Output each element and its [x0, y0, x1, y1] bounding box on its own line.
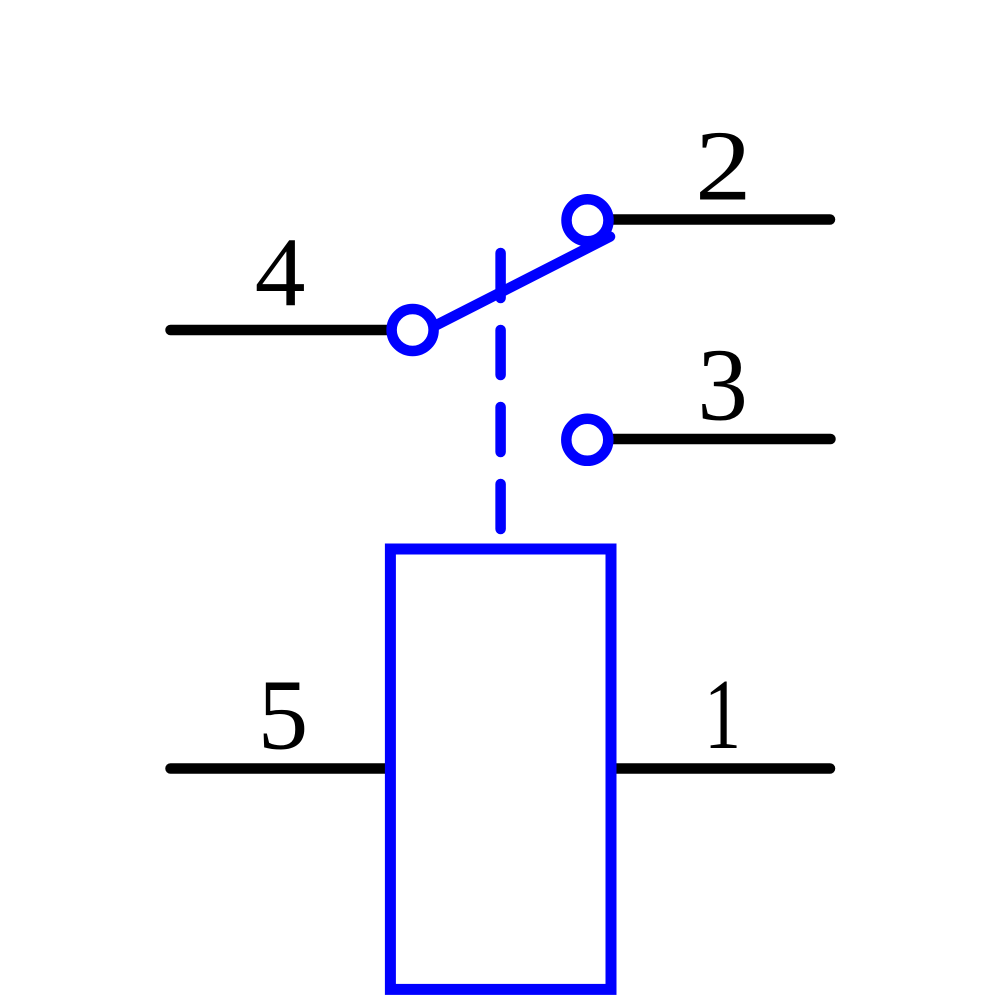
wire pin 5 — [171, 763, 396, 774]
wire pin 2 — [590, 214, 830, 225]
relay coil K1 — [390, 549, 611, 989]
switch arm — [434, 237, 611, 327]
wire pin 4 — [171, 325, 413, 336]
NO contact circle (pin 2) — [567, 199, 609, 241]
wire pin 3 — [590, 434, 831, 445]
svg-text:5: 5 — [258, 659, 309, 771]
common contact circle (pin 4) — [392, 309, 434, 351]
mechanical linkage dashed line — [495, 253, 506, 529]
svg-text:2: 2 — [695, 111, 751, 222]
NC contact circle (pin 3) — [566, 419, 608, 461]
svg-text:3: 3 — [697, 328, 748, 443]
svg-text:1: 1 — [704, 659, 741, 771]
svg-text:4: 4 — [255, 217, 306, 327]
wire pin 1 — [613, 763, 830, 774]
